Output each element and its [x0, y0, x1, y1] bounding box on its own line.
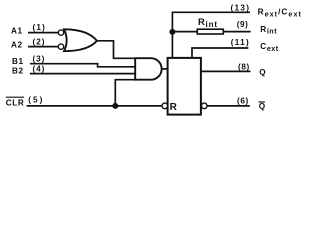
svg-text:Rint: Rint — [198, 17, 218, 29]
svg-text:A2: A2 — [11, 41, 23, 50]
svg-text:B1: B1 — [12, 57, 24, 66]
svg-text:R: R — [170, 102, 178, 113]
svg-text:(6): (6) — [237, 96, 249, 105]
svg-text:(4): (4) — [33, 64, 46, 73]
svg-text:A1: A1 — [11, 27, 23, 36]
svg-text:(8): (8) — [238, 62, 250, 71]
svg-text:Q: Q — [259, 68, 266, 77]
svg-text:CLR: CLR — [6, 99, 25, 108]
svg-text:(3): (3) — [33, 55, 46, 64]
svg-text:Q: Q — [259, 102, 266, 111]
svg-text:(13): (13) — [231, 3, 251, 12]
svg-text:(11): (11) — [231, 38, 250, 47]
svg-text:(1): (1) — [33, 23, 47, 32]
svg-text:B2: B2 — [12, 67, 24, 76]
svg-text:Rint: Rint — [260, 25, 277, 36]
svg-text:(2): (2) — [33, 38, 46, 47]
svg-text:(5): (5) — [28, 95, 44, 104]
svg-text:Cext: Cext — [260, 42, 279, 53]
svg-text:Rext/Cext: Rext/Cext — [258, 8, 302, 19]
svg-text:(9): (9) — [237, 20, 249, 29]
